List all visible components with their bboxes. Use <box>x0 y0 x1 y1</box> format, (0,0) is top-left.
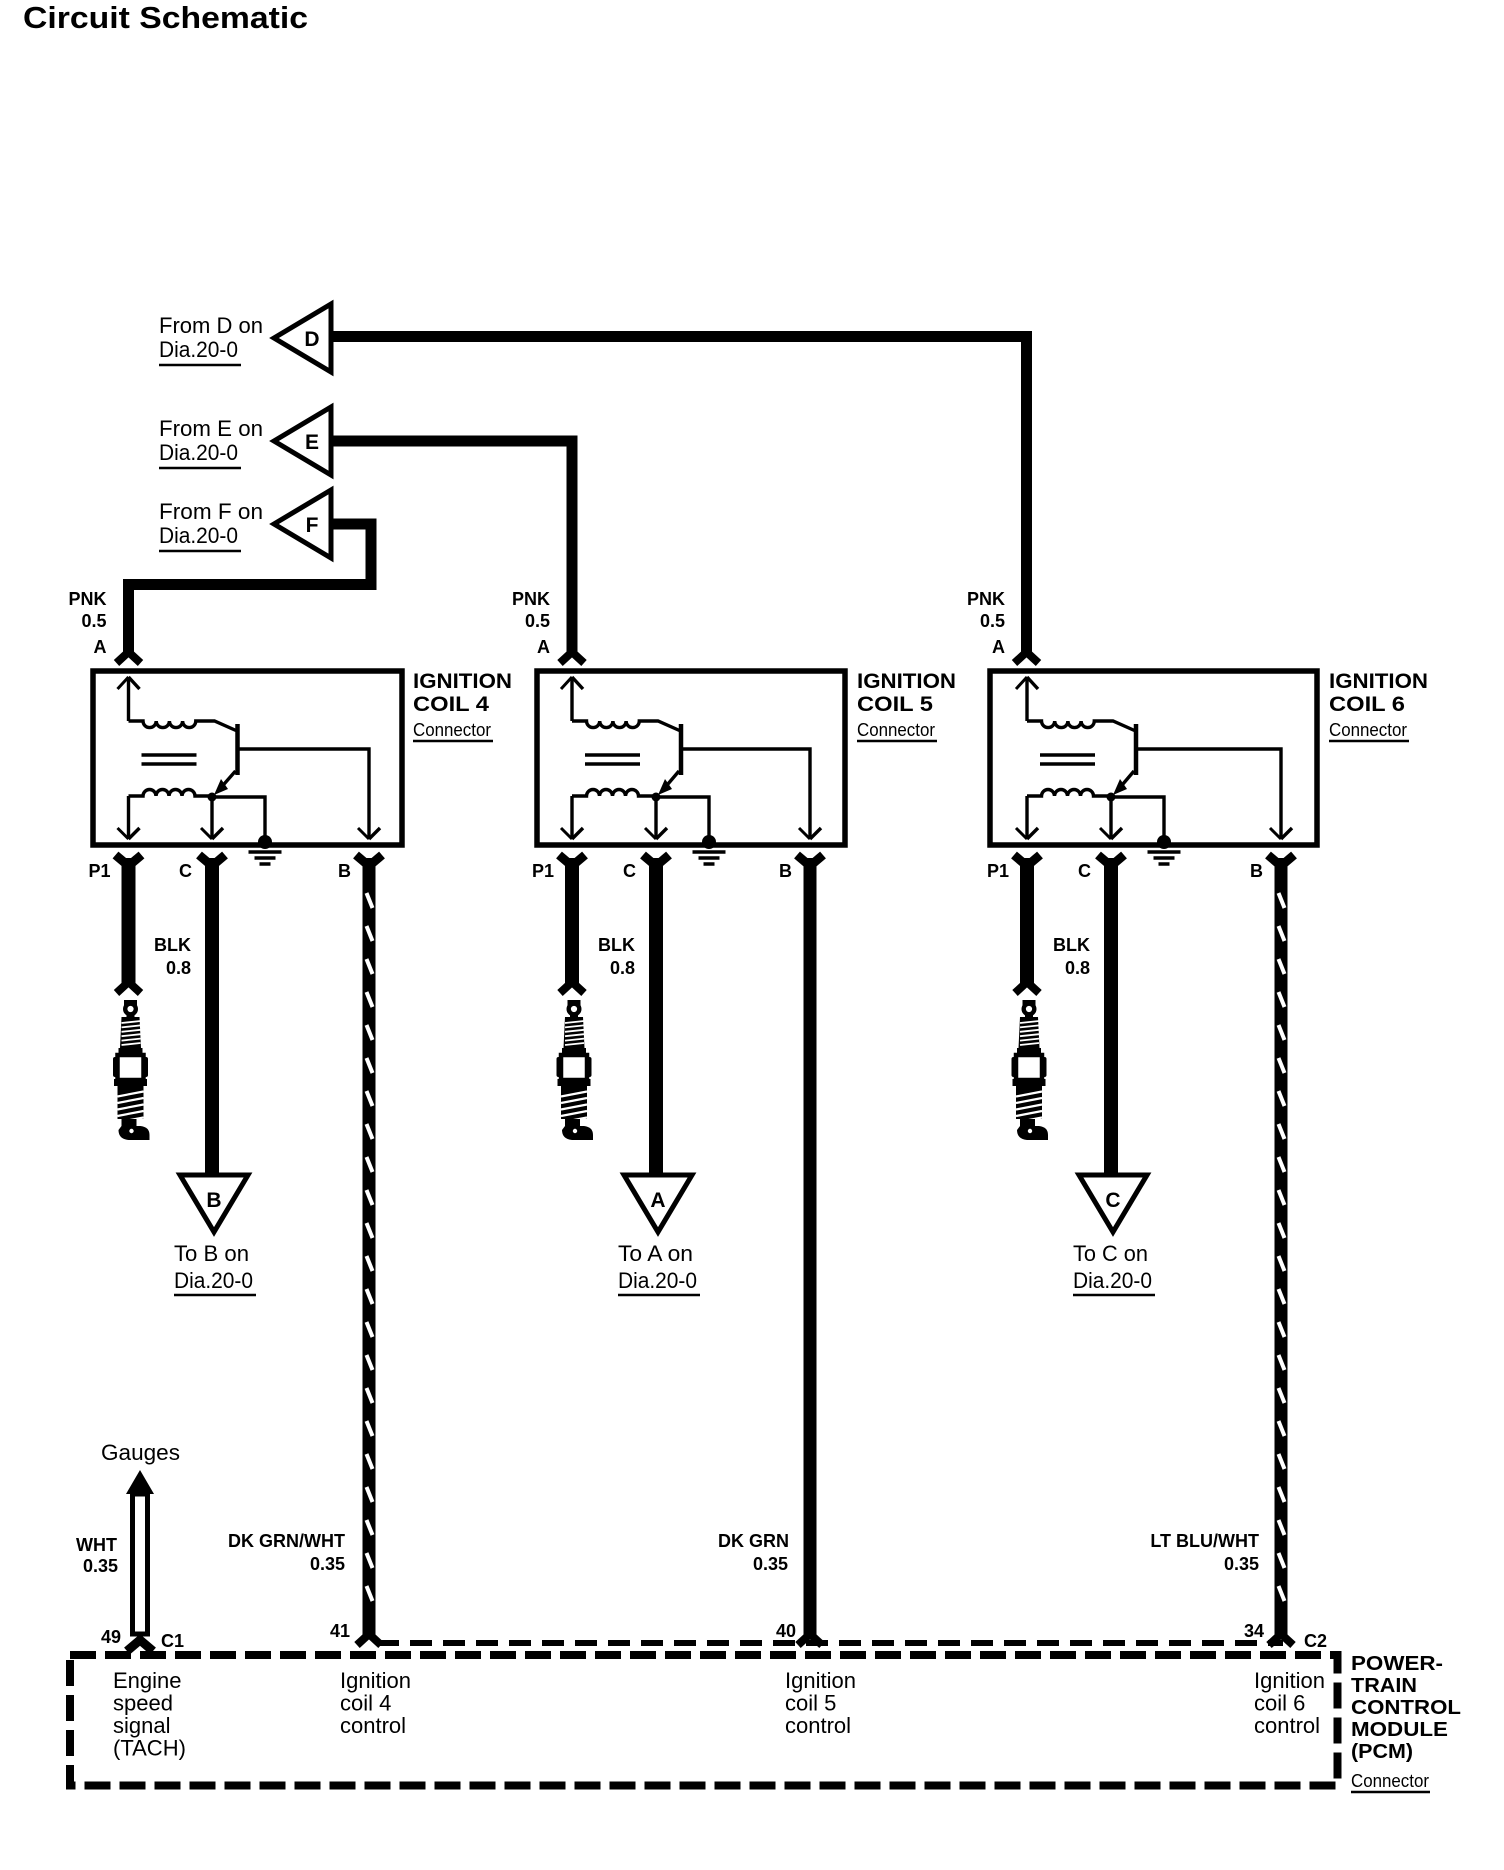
svg-text:B: B <box>206 1189 221 1212</box>
svg-text:0.35: 0.35 <box>310 1554 345 1574</box>
svg-text:PNK: PNK <box>967 589 1005 609</box>
svg-text:C1: C1 <box>161 1631 184 1651</box>
svg-text:LT BLU/WHT: LT BLU/WHT <box>1150 1531 1259 1551</box>
svg-text:Dia.20-0: Dia.20-0 <box>159 440 238 465</box>
svg-text:C2: C2 <box>1304 1631 1327 1651</box>
svg-text:IGNITION: IGNITION <box>413 670 512 693</box>
svg-text:41: 41 <box>330 1621 350 1641</box>
svg-text:coil 6: coil 6 <box>1254 1691 1305 1716</box>
svg-text:TRAIN: TRAIN <box>1351 1675 1417 1697</box>
svg-text:Engine: Engine <box>113 1668 182 1693</box>
svg-text:0.35: 0.35 <box>83 1556 118 1576</box>
svg-text:P1: P1 <box>532 861 554 881</box>
svg-text:0.8: 0.8 <box>1065 958 1090 978</box>
svg-text:Ignition: Ignition <box>1254 1668 1325 1693</box>
svg-text:control: control <box>1254 1713 1320 1738</box>
svg-text:BLK: BLK <box>1053 935 1090 955</box>
svg-text:coil 4: coil 4 <box>340 1691 391 1716</box>
svg-text:signal: signal <box>113 1713 170 1738</box>
svg-text:COIL 5: COIL 5 <box>857 693 933 716</box>
svg-text:From D on: From D on <box>159 313 263 338</box>
svg-text:PNK: PNK <box>512 589 550 609</box>
svg-text:Gauges: Gauges <box>101 1440 180 1465</box>
svg-text:PNK: PNK <box>68 589 106 609</box>
svg-text:To B on: To B on <box>174 1241 249 1266</box>
svg-text:To C on: To C on <box>1073 1241 1148 1266</box>
svg-text:C: C <box>1105 1189 1120 1212</box>
svg-text:BLK: BLK <box>598 935 635 955</box>
svg-text:Dia.20-0: Dia.20-0 <box>174 1268 253 1293</box>
svg-text:B: B <box>779 861 792 881</box>
svg-text:coil 5: coil 5 <box>785 1691 836 1716</box>
svg-text:Dia.20-0: Dia.20-0 <box>159 523 238 548</box>
svg-text:C: C <box>179 861 192 881</box>
svg-text:A: A <box>992 637 1005 657</box>
svg-text:control: control <box>785 1713 851 1738</box>
svg-text:MODULE: MODULE <box>1351 1719 1448 1741</box>
svg-text:Connector: Connector <box>413 720 491 740</box>
svg-text:P1: P1 <box>88 861 110 881</box>
svg-text:40: 40 <box>776 1621 796 1641</box>
svg-text:E: E <box>305 431 319 454</box>
svg-text:Circuit Schematic: Circuit Schematic <box>23 0 308 35</box>
svg-text:DK GRN/WHT: DK GRN/WHT <box>228 1531 345 1551</box>
svg-text:B: B <box>1250 861 1263 881</box>
svg-text:P1: P1 <box>987 861 1009 881</box>
svg-text:IGNITION: IGNITION <box>857 670 956 693</box>
svg-text:B: B <box>338 861 351 881</box>
svg-text:A: A <box>94 637 107 657</box>
svg-text:IGNITION: IGNITION <box>1329 670 1428 693</box>
svg-text:0.5: 0.5 <box>81 611 106 631</box>
svg-text:Connector: Connector <box>1351 1771 1429 1791</box>
svg-text:A: A <box>537 637 550 657</box>
svg-text:C: C <box>623 861 636 881</box>
svg-text:A: A <box>650 1189 665 1212</box>
svg-text:From F on: From F on <box>159 499 263 524</box>
svg-text:To A on: To A on <box>618 1241 693 1266</box>
svg-text:From E on: From E on <box>159 416 263 441</box>
svg-text:Ignition: Ignition <box>785 1668 856 1693</box>
svg-text:POWER-: POWER- <box>1351 1653 1443 1675</box>
svg-text:Ignition: Ignition <box>340 1668 411 1693</box>
svg-text:0.8: 0.8 <box>166 958 191 978</box>
svg-text:0.8: 0.8 <box>610 958 635 978</box>
svg-text:34: 34 <box>1244 1621 1264 1641</box>
svg-text:0.35: 0.35 <box>753 1554 788 1574</box>
svg-text:DK GRN: DK GRN <box>718 1531 789 1551</box>
svg-text:Connector: Connector <box>857 720 935 740</box>
svg-text:speed: speed <box>113 1691 173 1716</box>
svg-text:control: control <box>340 1713 406 1738</box>
svg-text:Dia.20-0: Dia.20-0 <box>618 1268 697 1293</box>
svg-text:WHT: WHT <box>76 1535 117 1555</box>
svg-text:D: D <box>304 328 319 351</box>
svg-text:CONTROL: CONTROL <box>1351 1697 1461 1719</box>
svg-text:49: 49 <box>101 1627 121 1647</box>
svg-text:0.35: 0.35 <box>1224 1554 1259 1574</box>
svg-text:0.5: 0.5 <box>525 611 550 631</box>
svg-text:BLK: BLK <box>154 935 191 955</box>
svg-text:COIL 6: COIL 6 <box>1329 693 1405 716</box>
svg-text:0.5: 0.5 <box>980 611 1005 631</box>
svg-text:C: C <box>1078 861 1091 881</box>
svg-text:(TACH): (TACH) <box>113 1736 186 1761</box>
svg-text:COIL 4: COIL 4 <box>413 693 489 716</box>
svg-text:F: F <box>306 514 319 537</box>
svg-text:(PCM): (PCM) <box>1351 1741 1413 1763</box>
svg-text:Connector: Connector <box>1329 720 1407 740</box>
svg-text:Dia.20-0: Dia.20-0 <box>159 337 238 362</box>
svg-text:Dia.20-0: Dia.20-0 <box>1073 1268 1152 1293</box>
